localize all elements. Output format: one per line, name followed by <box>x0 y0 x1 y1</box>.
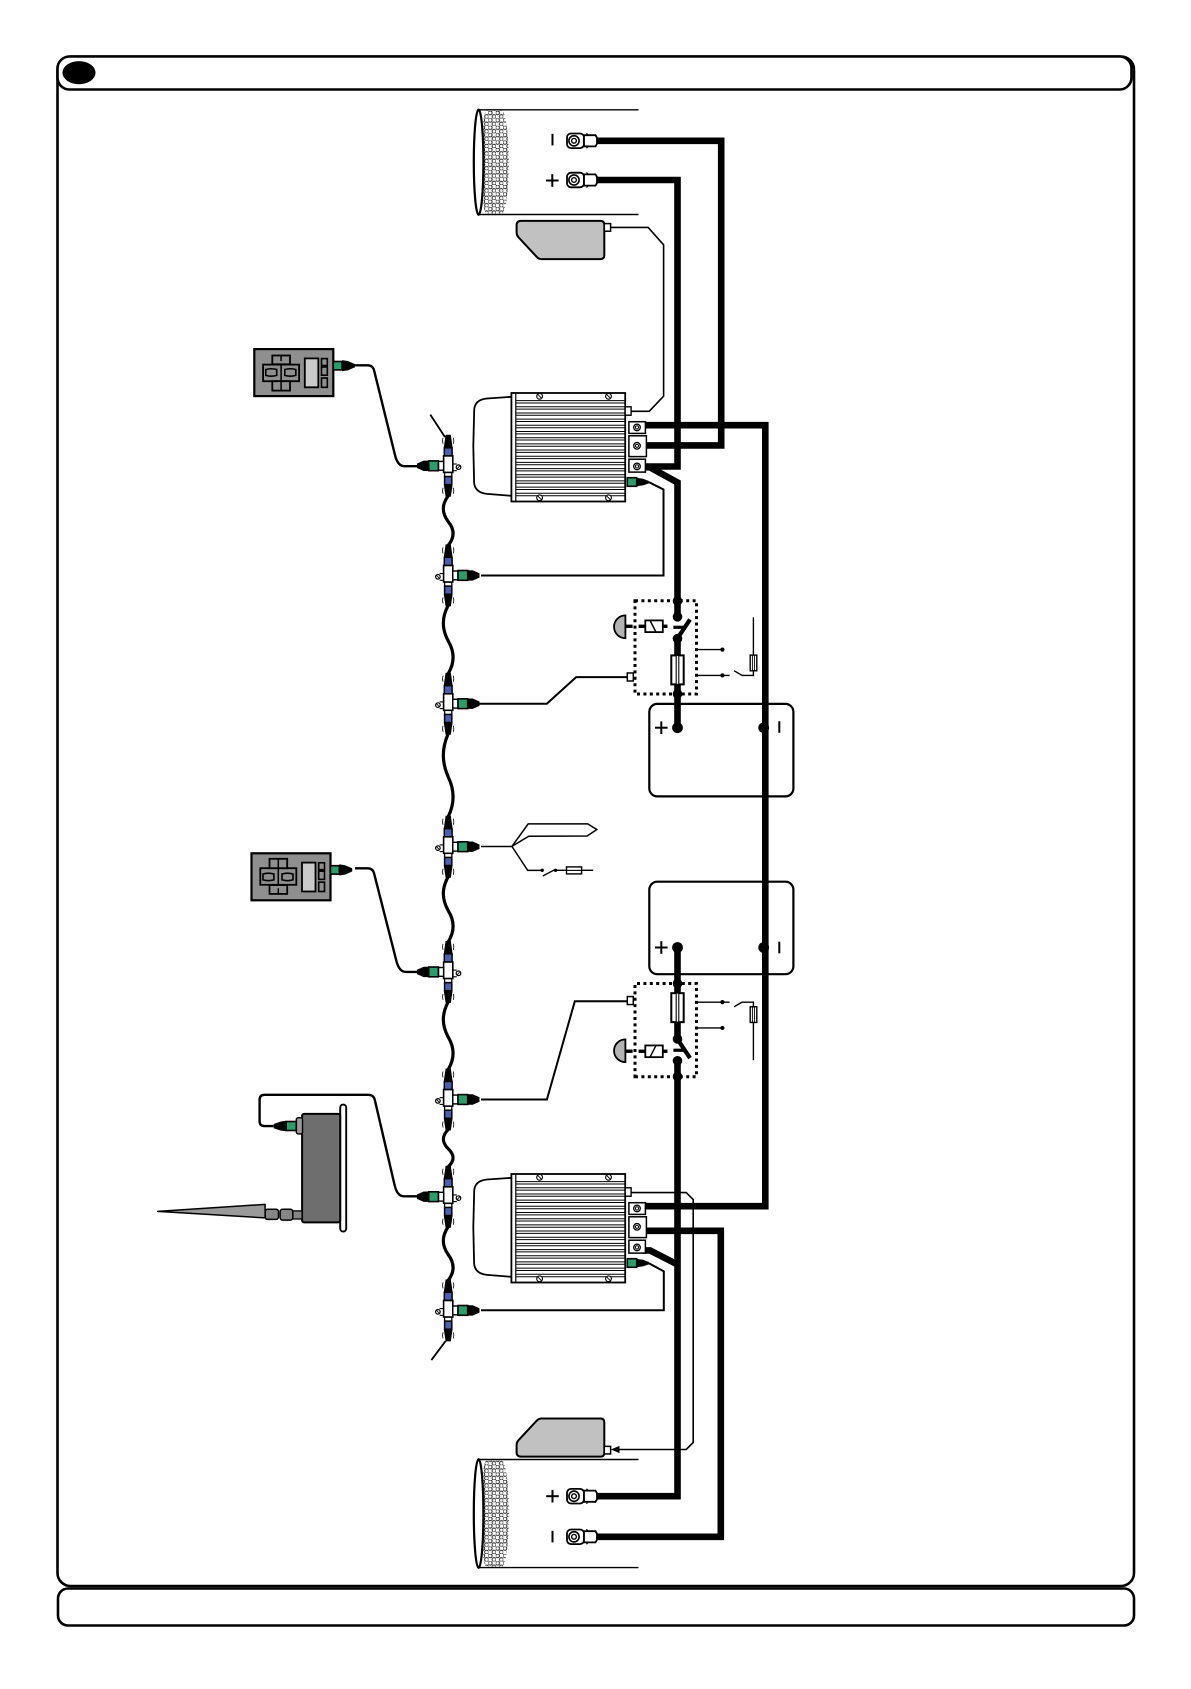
network backbone cable <box>443 877 453 942</box>
backbone cable end (top) <box>430 415 445 438</box>
spur wire: T-connector 4 to key and ignition <box>481 846 512 848</box>
fuse holder F1 <box>517 221 611 259</box>
arrow at fuse holder2 tab <box>611 1446 620 1453</box>
network backbone cable <box>443 734 453 817</box>
thin wire: control panel1 to T-connector 1 <box>355 365 418 466</box>
ring terminal lug tunnel2 plus <box>567 1489 597 1504</box>
remote main-switch circuit 2 <box>697 1000 757 1060</box>
label minus <box>778 721 780 733</box>
network backbone cable <box>443 1227 453 1281</box>
thick cable: fuse box2 down to tunnel2 plus <box>595 1077 678 1497</box>
thin wire: motor2 green connector to T-connector 8 <box>481 1263 664 1310</box>
thick cable: tunnel2 minus to motor2 terminal B <box>595 1231 721 1537</box>
thin wire: T-connector 6 to fuse box2 tab <box>481 1001 627 1099</box>
network backbone cable <box>443 1002 453 1070</box>
network backbone cable <box>443 496 453 546</box>
thick cable: branch to motor2 terminal C <box>644 1250 678 1264</box>
antenna hinge collar <box>293 1211 302 1219</box>
label minus <box>778 942 780 954</box>
main fuse / relay box 1 <box>614 596 696 699</box>
ignition switch + fuse branch <box>512 846 541 870</box>
ring terminal lug tunnel1 plus <box>567 173 597 188</box>
T-connector 8 <box>436 1279 480 1341</box>
thick cable: negative bus motor1 A - battery1 - battery2 - motor2 A <box>644 425 765 1206</box>
thin wire: fuse holder2 to motor2 tab <box>618 1193 694 1450</box>
label plus <box>655 947 668 949</box>
battery1 terminal dots <box>672 722 683 733</box>
remote main-switch circuit 1 <box>697 617 757 677</box>
battery B2 <box>649 882 793 975</box>
T-connector 3 <box>436 673 480 735</box>
thick cable: battery2 plus to fuse box2 <box>674 948 681 984</box>
thick cable: tunnel1 minus to motor1 terminal B <box>595 141 721 446</box>
label plus <box>546 1495 559 1497</box>
thin wire: control panel2 to T-connector 5 <box>355 868 419 972</box>
thruster motor M1 <box>473 393 649 502</box>
key symbol <box>512 824 597 847</box>
T-connector 1 <box>417 435 461 497</box>
main fuse / relay box 2 <box>614 979 696 1082</box>
header bar <box>58 57 1132 90</box>
T-connector 2 <box>436 544 480 606</box>
thin wire: motor1 green connector to T-connector 2 <box>481 482 664 575</box>
T-connector 6 <box>436 1069 480 1131</box>
tunnel tube 1 (bow) <box>474 110 639 215</box>
T-connector 7 <box>417 1166 461 1228</box>
label plus <box>546 180 559 182</box>
ring terminal lug tunnel2 minus <box>567 1529 597 1544</box>
radio receiver R1 <box>340 1105 346 1232</box>
thin wire: fuse holder1 to motor1 tab <box>611 227 664 411</box>
fuse holder F2 <box>517 1418 611 1456</box>
control panel 1 <box>254 349 355 396</box>
header step marker (black ellipse) <box>63 61 96 84</box>
battery B1 <box>649 704 793 797</box>
receiver aerial connector collar <box>296 1118 302 1134</box>
footer bar <box>58 1589 1134 1626</box>
backbone cable end (bottom) <box>431 1341 445 1360</box>
cable end dots <box>640 422 647 429</box>
T-connector 5 <box>417 941 461 1003</box>
thick cable: tunnel1 plus down to motor1 terminal C and fuse box 1 <box>595 180 678 467</box>
receiver green connector <box>286 1122 296 1131</box>
network backbone cable <box>443 605 453 673</box>
label minus <box>552 1531 554 1543</box>
thick cable: fuse box1 to battery1 plus <box>674 694 681 728</box>
battery2 terminal dots <box>672 942 683 953</box>
ring terminal lug tunnel1 minus <box>567 133 597 148</box>
tunnel tube 2 (stern) <box>474 1459 639 1568</box>
label plus <box>655 727 668 729</box>
T-connector 4 <box>436 816 480 878</box>
antenna blade <box>158 1204 265 1218</box>
thruster motor M2 <box>473 1174 649 1283</box>
network backbone cable <box>443 1130 453 1167</box>
control panel 2 <box>252 853 353 900</box>
label minus <box>552 134 554 146</box>
thin wire: receiver to T-connector 7 <box>260 1095 419 1197</box>
thin wire: T-connector 3 to fuse box1 tab <box>480 677 628 704</box>
